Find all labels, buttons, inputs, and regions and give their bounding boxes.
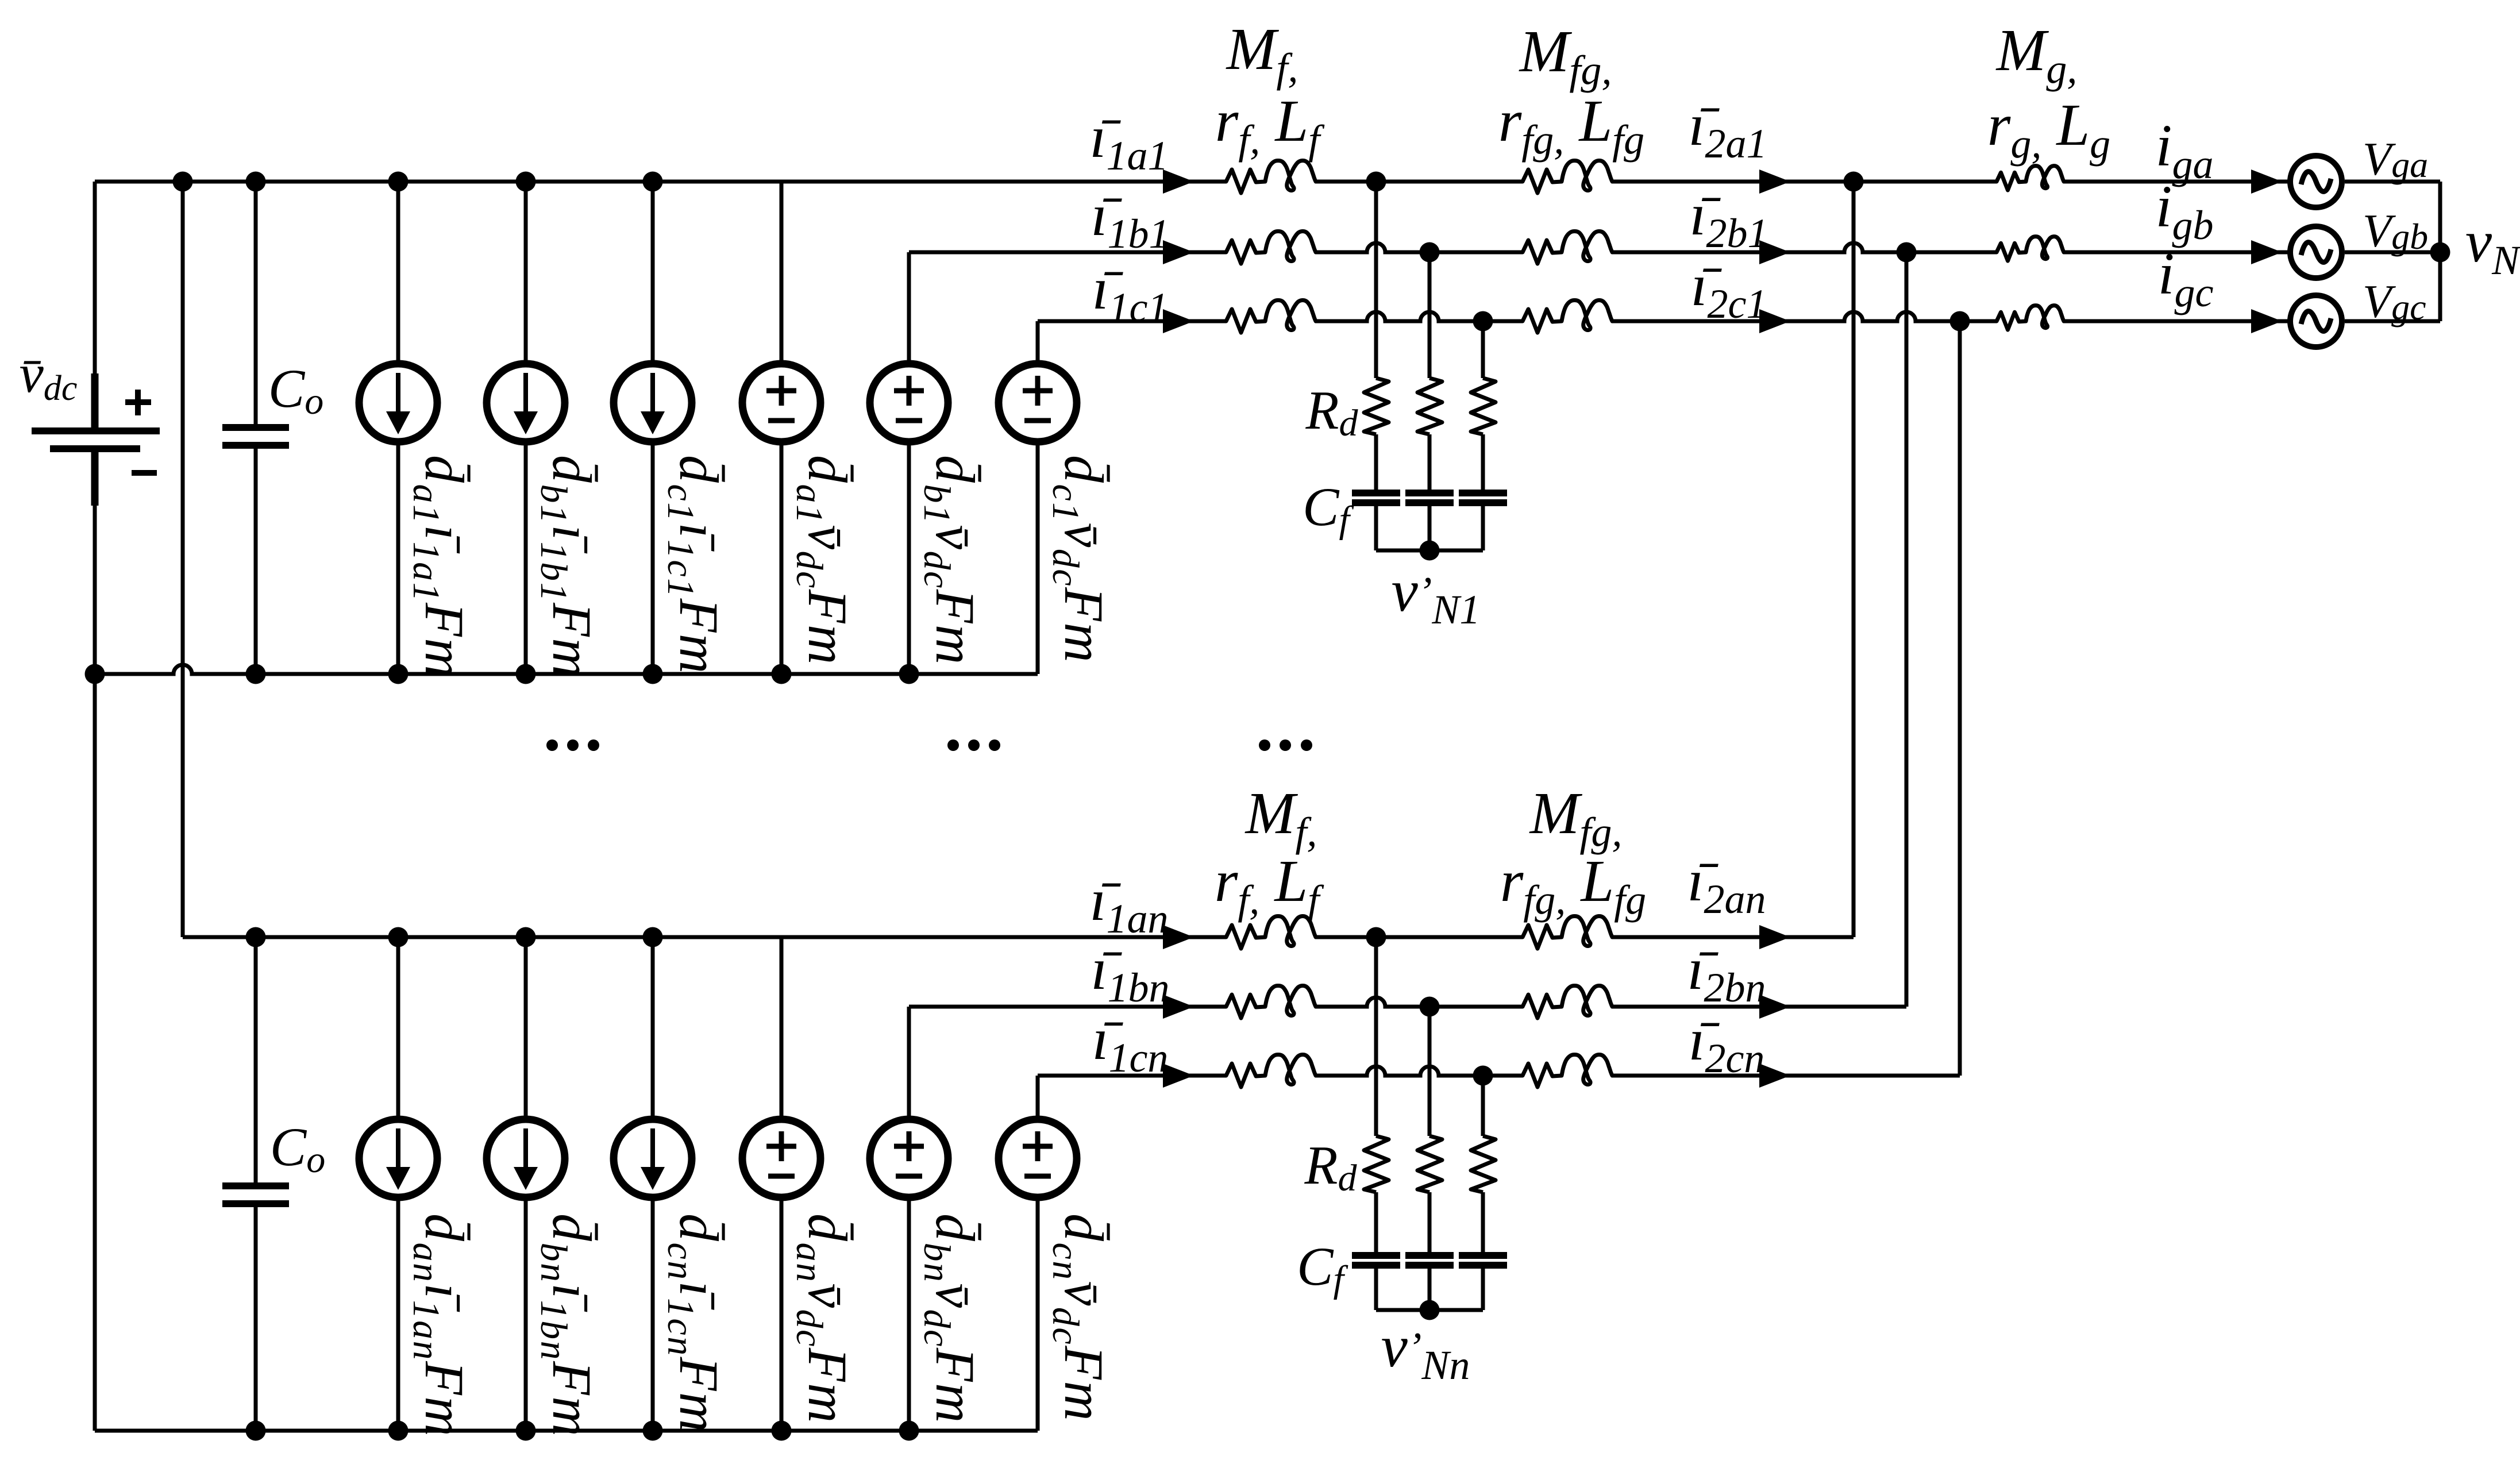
wire shunt an lower [1374,1269,1378,1310]
wire phase a1 mid [1316,180,1523,184]
inductor rg Lg [1997,166,2064,190]
wire shunt an upper [1374,937,1378,1136]
wire dc link rail to section n [181,182,185,937]
capacitor Co section n [222,1182,289,1207]
junction top bus / current source c1 [643,172,663,192]
wire phase c1 mid [1316,312,1523,321]
voltage source db1*vdc*Fm [870,364,948,442]
inductor rf Lf [1226,160,1316,193]
wire voltage source bn bottom lead [907,1201,911,1431]
wire section n negative bus [95,1429,1038,1433]
wire shunt c1 mid [1481,434,1485,490]
wire filter neutral N1 [1376,549,1483,553]
wire voltage source an bottom lead [780,1201,784,1431]
wire current source b1 bottom lead [524,445,528,674]
arrow i1 phase n [1163,925,1194,949]
wire paralleling bus phase a [1852,182,1856,937]
wire grid source to neutral [2345,180,2440,184]
junction top bus / current source b1 [516,172,536,192]
ac source Vgb [2290,226,2342,278]
wire shunt b1 lower [1428,506,1432,550]
wire top dc bus / phase a1 [95,180,1226,184]
wire Co top lead [254,182,258,427]
wire to grid source [2064,251,2290,255]
junction neutral N1 [1420,541,1440,561]
inductor rfg Lfg n [1523,1054,1612,1087]
wire shunt an mid [1374,1192,1378,1252]
wire shunt b1 upper [1428,252,1432,378]
inductor rfg Lfg [1523,300,1612,333]
capacitor Cf a1 [1352,490,1400,506]
wire phase b1 [909,251,1226,255]
junction negative bus n [899,1421,919,1441]
wire current source bn top lead [524,937,528,1116]
wire voltage source c1 top lead [1036,321,1040,360]
resistor Rd bn [1417,1136,1442,1192]
junction negative bus [516,664,536,684]
wire phase c1 [1038,319,1226,323]
resistor Rd cn [1471,1136,1496,1192]
resistor Rd a1 [1364,378,1389,434]
junction bus n / current source bn [516,927,536,947]
battery Vdc [32,373,160,506]
arrow i2 phase [1759,240,1790,264]
wire Co n bottom lead [254,1207,258,1431]
junction top bus / Co [246,172,266,192]
wire shunt bn lower [1428,1269,1432,1310]
ellipsis repeated converters right [1259,739,1312,751]
wire Co bottom lead [254,449,258,674]
arrow ig phase [2251,169,2282,194]
junction pcc phase a [1844,172,1864,192]
wire current source a1 top lead [396,182,400,360]
arrow i1 phase [1163,240,1194,264]
wire phase bn [909,1005,1226,1009]
wire voltage source bn top lead [907,1007,911,1116]
resistor Rd c1 [1471,378,1496,434]
junction negative bus [85,664,105,684]
junction negative bus n [246,1421,266,1441]
wire paralleling bus phase c [1958,321,1962,1076]
wire phase cn [1038,1074,1226,1078]
capacitor Co [222,424,289,449]
junction negative bus [246,664,266,684]
arrow ig phase [2251,240,2282,264]
arrow i2 phase n [1759,1064,1790,1088]
ac source Vgc [2290,295,2342,347]
junction pcc phase c [1950,311,1970,332]
wire grid neutral bus [2438,182,2442,321]
battery minus terminal [132,470,157,476]
wire shunt cn mid [1481,1192,1485,1252]
junction negative bus n [772,1421,792,1441]
capacitor Cf cn [1459,1252,1507,1269]
wire shunt cn upper [1481,1076,1485,1136]
wire paralleling bus phase b [1905,252,1909,1007]
inductor rg Lg [1997,237,2064,261]
arrow i2 phase [1759,309,1790,333]
voltage source dcn*vdc*Fm [999,1119,1077,1197]
junction negative bus n [388,1421,409,1441]
current source dan*i1an*Fm [359,1119,437,1197]
junction negative bus n [643,1421,663,1441]
arrow i1 phase n [1163,995,1194,1019]
voltage source dc1*vdc*Fm [999,364,1077,442]
junction negative bus [772,664,792,684]
wire shunt cn lower [1481,1269,1485,1310]
junction bus n / Co [246,927,266,947]
wire phase cn out [1612,1074,1960,1078]
wire shunt c1 upper [1481,321,1485,378]
capacitor Cf c1 [1459,490,1507,506]
junction negative bus [388,664,409,684]
wire voltage source b1 top lead [907,252,911,360]
wire current source an top lead [396,937,400,1116]
wire voltage source c1 bottom lead [1036,445,1040,674]
arrow i1 phase [1163,169,1194,194]
ellipsis repeated converters middle [947,739,1000,751]
wire shunt bn upper [1428,1007,1432,1136]
inductor rf Lf n [1226,1054,1316,1087]
arrow i1 phase [1163,309,1194,333]
wire phase an mid [1316,935,1523,939]
arrow ig phase [2251,309,2282,333]
voltage source dbn*vdc*Fm [870,1119,948,1197]
voltage source dan*vdc*Fm [742,1119,820,1197]
wire phase bn mid [1316,997,1523,1007]
wire negative rail to section n [93,674,97,1431]
junction negative bus [643,664,663,684]
wire Co n top lead [254,937,258,1182]
junction grid neutral [2430,242,2450,263]
wire shunt b1 mid [1428,434,1432,490]
current source dcn*i1cn*Fm [614,1119,692,1197]
wire to grid source [2064,180,2290,184]
current source dc1*i1c1*Fm [614,364,692,442]
inductor rg Lg [1997,306,2064,330]
junction phase a1 / shunt [1366,172,1386,192]
wire current source c1 top lead [651,182,655,360]
junction neutral Nn [1420,1300,1440,1320]
wire phase c1 out [1612,312,1997,321]
inductor rfg Lfg n [1523,916,1612,949]
capacitor Cf an [1352,1252,1400,1269]
junction negative bus n [516,1421,536,1441]
resistor Rd b1 [1417,378,1442,434]
ac source Vga [2290,156,2342,207]
junction top bus / link rail [173,172,193,192]
inductor rf Lf [1226,300,1316,333]
junction phase cn / shunt [1473,1066,1493,1086]
arrow i1 phase n [1163,1064,1194,1088]
voltage source da1*vdc*Fm [742,364,820,442]
current source dbn*i1bn*Fm [487,1119,565,1197]
wire grid source to neutral [2345,251,2440,255]
wire current source an bottom lead [396,1201,400,1431]
wire shunt bn mid [1428,1192,1432,1252]
wire voltage source a1 bottom lead [780,445,784,674]
wire voltage source cn top lead [1036,1076,1040,1116]
wire shunt a1 lower [1374,506,1378,550]
junction phase bn / shunt [1420,997,1440,1017]
wire voltage source a1 top lead [780,182,784,360]
inductor rf Lf n [1226,985,1316,1018]
inductor rfg Lfg n [1523,985,1612,1018]
wire phase bn out [1612,1005,1906,1009]
arrow i2 phase n [1759,995,1790,1019]
wire grid source to neutral [2345,319,2440,323]
wire top section negative bus [95,665,1038,674]
wire phase cn mid [1316,1066,1523,1076]
wire voltage source cn bottom lead [1036,1201,1040,1431]
battery plus terminal [125,390,151,415]
junction negative bus [899,664,919,684]
wire voltage source an top lead [780,937,784,1116]
current source da1*i1a1*Fm [359,364,437,442]
wire shunt a1 mid [1374,434,1378,490]
wire phase an out [1612,935,1854,939]
ellipsis repeated converters left [546,739,599,751]
inductor rf Lf [1226,231,1316,264]
arrow i2 phase [1759,169,1790,194]
wire current source a1 bottom lead [396,445,400,674]
junction top bus / current source a1 [388,172,409,192]
wire battery negative lead upper [93,506,97,674]
junction phase c1 / shunt [1473,311,1493,332]
wire battery positive lead [93,182,97,373]
wire current source b1 top lead [524,182,528,360]
wire section n dc bus / phase an [183,935,1226,939]
junction bus n / current source cn [643,927,663,947]
wire current source bn bottom lead [524,1201,528,1431]
current source db1*i1b1*Fm [487,364,565,442]
wire shunt a1 upper [1374,182,1378,378]
wire current source cn bottom lead [651,1201,655,1431]
wire phase b1 mid [1316,243,1523,252]
capacitor Cf bn [1405,1252,1454,1269]
junction phase an / shunt [1366,927,1386,947]
wire phase a1 out [1612,180,1997,184]
wire filter neutral Nn [1376,1308,1483,1312]
junction phase b1 / shunt [1420,242,1440,263]
wire voltage source b1 bottom lead [907,445,911,674]
inductor rfg Lfg [1523,231,1612,264]
arrow i2 phase n [1759,925,1790,949]
resistor Rd an [1364,1136,1389,1192]
wire current source c1 bottom lead [651,445,655,674]
wire current source cn top lead [651,937,655,1116]
inductor rf Lf n [1226,916,1316,949]
capacitor Cf b1 [1405,490,1454,506]
inductor rfg Lfg [1523,160,1612,193]
wire to grid source [2064,319,2290,323]
wire phase b1 out [1612,243,1997,252]
wire shunt c1 lower [1481,506,1485,550]
junction bus n / current source an [388,927,409,947]
junction pcc phase b [1897,242,1917,263]
